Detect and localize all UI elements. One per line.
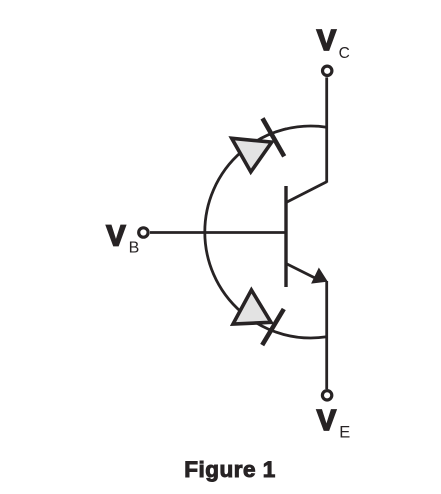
- diode D1 cathode bar: [263, 118, 285, 156]
- label VB: [106, 221, 139, 257]
- terminal VB: [139, 228, 148, 237]
- arc base-collector-emitter: [205, 126, 327, 338]
- svg-text:V: V: [106, 221, 126, 253]
- svg-text:E: E: [339, 424, 350, 442]
- svg-text:Figure 1: Figure 1: [184, 457, 276, 482]
- transistor Q1 collector lead: [286, 182, 327, 203]
- diode D2 base-emitter triangle: [233, 290, 271, 324]
- wire emitter vertical: [325, 281, 328, 389]
- svg-text:B: B: [129, 240, 140, 257]
- diode D1 base-collector triangle: [232, 138, 272, 172]
- terminal VC: [323, 66, 332, 75]
- diode D2 cathode bar: [262, 309, 284, 345]
- transistor Q1 base bar: [284, 186, 287, 287]
- terminal VE: [322, 391, 331, 400]
- label VE: [317, 405, 351, 442]
- label VC: [317, 25, 350, 62]
- wire collector vertical: [325, 77, 328, 182]
- wire base: [150, 231, 286, 234]
- svg-text:V: V: [317, 405, 337, 437]
- transistor Q1 emitter arrow: [312, 269, 327, 283]
- transistor Q1 emitter lead: [286, 264, 320, 281]
- svg-text:V: V: [317, 25, 337, 57]
- svg-text:C: C: [339, 45, 350, 62]
